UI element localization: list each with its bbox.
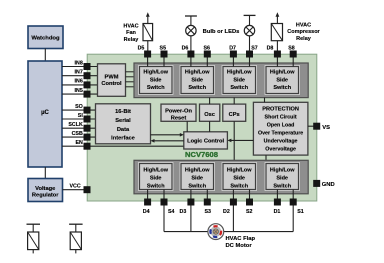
svg-text:S4: S4 xyxy=(168,209,175,215)
wire pin S1 stub xyxy=(292,190,294,201)
wire IN5 xyxy=(62,88,98,94)
block CPs xyxy=(223,104,246,121)
svg-text:Compressor: Compressor xyxy=(287,29,320,35)
svg-text:Switch: Switch xyxy=(273,85,291,91)
pin VS xyxy=(313,123,330,131)
svg-text:HVAC: HVAC xyxy=(123,24,138,30)
svg-text:PROTECTION: PROTECTION xyxy=(262,107,299,113)
svg-text:Voltage: Voltage xyxy=(35,186,55,192)
wire pin D6 stub xyxy=(190,56,192,67)
block High/Low Side Switch 6 xyxy=(180,65,215,95)
pin IN8 xyxy=(84,63,91,70)
wire S1 to motor xyxy=(292,206,294,232)
pin CSB xyxy=(84,134,91,141)
pin VCC xyxy=(84,186,91,193)
svg-text:D7: D7 xyxy=(229,45,236,51)
wire switch bank to PROTECTION xyxy=(264,98,266,103)
wire pin S8 stub xyxy=(292,56,294,67)
svg-text:High/Low: High/Low xyxy=(270,70,295,76)
wire IN8 xyxy=(62,60,98,66)
relay K2 HVAC Compressor Relay symbol xyxy=(271,12,282,50)
pin D3 xyxy=(180,199,195,216)
svg-text:Regulator: Regulator xyxy=(32,193,59,199)
block Power-On Reset xyxy=(161,104,196,122)
pin IN5 xyxy=(84,91,91,98)
box Watchdog xyxy=(28,26,63,49)
wire PWM out 1 xyxy=(126,71,136,73)
wire motor right segment xyxy=(224,231,294,233)
relay K4 spare relay symbol xyxy=(69,224,83,253)
svg-text:Side: Side xyxy=(191,77,203,83)
wire pin D2 stub xyxy=(232,190,234,201)
pin D7 xyxy=(229,45,237,57)
pin D6 xyxy=(182,45,195,57)
wire Watchdog to uC xyxy=(44,49,46,62)
svg-text:Side: Side xyxy=(233,175,245,181)
wire pin D4 stub xyxy=(147,190,149,201)
wire PWM out 4 xyxy=(126,86,136,88)
wire CPs to bottom switch bank xyxy=(233,121,235,160)
svg-text:S8: S8 xyxy=(288,45,295,51)
pin S5 xyxy=(160,45,168,57)
container top switch bank xyxy=(134,63,308,98)
svg-text:D4: D4 xyxy=(143,209,150,215)
svg-text:Switch: Switch xyxy=(188,85,206,91)
wire IN7 xyxy=(62,70,98,76)
pin S6 xyxy=(203,45,210,57)
wire SO xyxy=(62,104,96,110)
svg-text:Open Load: Open Load xyxy=(267,123,295,129)
svg-text:Side: Side xyxy=(150,175,162,181)
wire PWM out 3 xyxy=(126,81,136,83)
svg-text:IN6: IN6 xyxy=(75,79,83,85)
svg-text:D6: D6 xyxy=(182,45,189,51)
wire PWM out 2 xyxy=(126,76,136,78)
pin S1 xyxy=(290,199,304,216)
svg-text:Relay: Relay xyxy=(296,36,312,42)
svg-text:µC: µC xyxy=(41,110,49,116)
pin S4 xyxy=(161,199,175,216)
pin EN xyxy=(84,143,91,150)
svg-text:DC Motor: DC Motor xyxy=(226,243,253,249)
svg-text:Short Circuit: Short Circuit xyxy=(265,115,297,121)
svg-text:High/Low: High/Low xyxy=(227,167,252,173)
wire Interface to Logic Control arrow xyxy=(151,133,184,137)
block Osc xyxy=(200,104,220,121)
svg-text:High/Low: High/Low xyxy=(227,70,252,76)
wire Logic Control to Interface arrow xyxy=(151,139,184,143)
label HVAC Compressor Relay xyxy=(287,23,320,42)
svg-text:D2: D2 xyxy=(223,209,230,215)
wire SCLK xyxy=(62,122,96,128)
svg-text:CSB: CSB xyxy=(72,131,83,137)
IC NCV7608 chip body xyxy=(87,54,317,201)
svg-text:IN5: IN5 xyxy=(75,88,83,94)
svg-text:Interface: Interface xyxy=(111,136,135,142)
svg-text:Overvoltage: Overvoltage xyxy=(265,147,296,153)
svg-text:Side: Side xyxy=(276,77,288,83)
block PROTECTION xyxy=(253,102,308,155)
pin D8 xyxy=(267,45,281,57)
wire pin S6 stub xyxy=(206,56,208,67)
wire pin D1 stub xyxy=(276,190,278,201)
wire Osc to Logic Control xyxy=(209,121,211,132)
wire pin S3 stub xyxy=(206,190,208,201)
label HVAC Flap DC Motor xyxy=(226,236,256,249)
block PWM Control xyxy=(98,64,126,97)
svg-text:Side: Side xyxy=(233,77,245,83)
svg-text:Data: Data xyxy=(117,127,130,133)
block High/Low Side Switch 7 xyxy=(222,65,257,95)
pin D1 xyxy=(274,199,281,216)
wire pin D7 stub xyxy=(232,56,234,67)
svg-text:HVAC Flap: HVAC Flap xyxy=(226,236,256,242)
wire PROTECTION to bottom switch bank xyxy=(265,155,267,160)
wire switch bank to CPs xyxy=(233,98,235,105)
block High/Low Side Switch 5 xyxy=(138,65,173,95)
wire EN to Logic Control xyxy=(62,140,184,146)
svg-text:D5: D5 xyxy=(138,45,145,51)
pin S3 xyxy=(204,199,211,216)
pin IN7 xyxy=(84,72,91,79)
svg-text:Switch: Switch xyxy=(273,183,291,189)
pin S7 xyxy=(246,45,258,57)
svg-text:GND: GND xyxy=(322,182,335,188)
block High/Low Side Switch 4 xyxy=(138,162,173,191)
svg-text:High/Low: High/Low xyxy=(185,70,210,76)
svg-text:S5: S5 xyxy=(160,45,167,51)
svg-text:SI: SI xyxy=(78,113,84,119)
wire D3 to motor xyxy=(190,206,192,232)
svg-text:PWM: PWM xyxy=(105,74,119,80)
svg-text:Side: Side xyxy=(191,175,203,181)
pin D4 xyxy=(143,199,151,216)
wire pin D5 stub xyxy=(147,56,149,67)
svg-text:Switch: Switch xyxy=(147,85,165,91)
wire pin D3 stub xyxy=(190,190,192,201)
svg-text:High/Low: High/Low xyxy=(185,167,210,173)
svg-text:VCC: VCC xyxy=(70,184,81,190)
lamp DS1 bulb symbol xyxy=(185,16,197,51)
wire motor left segment xyxy=(164,231,208,233)
svg-text:Switch: Switch xyxy=(230,85,248,91)
pin D5 xyxy=(138,45,151,57)
svg-text:High/Low: High/Low xyxy=(143,167,168,173)
svg-text:Over Temperature: Over Temperature xyxy=(258,131,303,137)
wire PROTECTION to VS pin xyxy=(308,125,314,127)
svg-text:Reset: Reset xyxy=(171,116,187,122)
pin SI xyxy=(84,116,91,123)
pin S2 xyxy=(246,199,253,216)
box Voltage Regulator xyxy=(28,179,63,202)
wire switch bank to Osc xyxy=(209,98,211,105)
svg-text:S7: S7 xyxy=(251,45,258,51)
svg-text:Bulb or LEDs: Bulb or LEDs xyxy=(203,29,240,35)
svg-text:HVAC: HVAC xyxy=(296,23,311,29)
block High/Low Side Switch 3 xyxy=(180,162,215,191)
svg-text:Side: Side xyxy=(150,77,162,83)
label HVAC Fan Relay xyxy=(123,24,139,43)
svg-text:SCLK: SCLK xyxy=(68,122,83,128)
wire CSB xyxy=(62,131,96,137)
wire PROTECTION to Logic Control arrow xyxy=(227,139,253,143)
wire pin D8 stub xyxy=(276,56,278,67)
svg-text:Control: Control xyxy=(101,81,122,87)
svg-text:Switch: Switch xyxy=(147,183,165,189)
svg-text:Switch: Switch xyxy=(230,183,248,189)
svg-text:IN8: IN8 xyxy=(75,60,83,66)
svg-text:Osc: Osc xyxy=(204,112,215,118)
wire S4 to motor xyxy=(163,206,165,232)
svg-text:SO: SO xyxy=(75,104,83,110)
relay K3 spare relay symbol xyxy=(27,224,41,253)
pin GND xyxy=(313,180,334,188)
wire VCC xyxy=(63,184,88,190)
svg-text:S1: S1 xyxy=(297,209,304,215)
svg-text:S3: S3 xyxy=(204,209,211,215)
svg-text:Serial: Serial xyxy=(115,118,131,124)
svg-text:Undervoltage: Undervoltage xyxy=(264,139,298,145)
wire uC to Voltage Regulator xyxy=(44,167,46,179)
pin S8 xyxy=(288,45,296,57)
svg-text:Watchdog: Watchdog xyxy=(31,36,60,42)
svg-text:IN7: IN7 xyxy=(75,70,83,76)
wire pin S4 stub xyxy=(163,190,165,201)
svg-text:CPs: CPs xyxy=(229,112,240,118)
wire Power-On Reset to Logic Control xyxy=(186,121,188,132)
pin SO xyxy=(84,107,91,114)
wire pin S5 stub xyxy=(163,56,165,67)
svg-text:High/Low: High/Low xyxy=(143,70,168,76)
block High/Low Side Switch 8 xyxy=(265,65,300,95)
svg-text:D1: D1 xyxy=(274,209,281,215)
lamp DS2 bulb symbol xyxy=(244,15,256,50)
block High/Low Side Switch 1 xyxy=(265,162,300,191)
svg-text:16-Bit: 16-Bit xyxy=(115,109,131,115)
pin SCLK xyxy=(84,125,91,132)
svg-text:D8: D8 xyxy=(267,45,274,51)
wire D2 to motor xyxy=(232,206,234,232)
wire SI xyxy=(62,113,96,119)
container bottom switch bank xyxy=(134,160,308,194)
svg-text:Logic Control: Logic Control xyxy=(187,139,224,145)
svg-text:Fan: Fan xyxy=(126,30,136,36)
svg-text:NCV7608: NCV7608 xyxy=(185,150,218,159)
motor M1 HVAC Flap DC Motor xyxy=(208,224,224,240)
pin D2 xyxy=(223,199,237,216)
pin IN6 xyxy=(84,81,91,88)
svg-text:High/Low: High/Low xyxy=(270,167,295,173)
relay K1 HVAC Fan Relay symbol xyxy=(143,12,153,50)
wire pin S2 stub xyxy=(249,190,251,201)
svg-text:Switch: Switch xyxy=(188,183,206,189)
svg-text:EN: EN xyxy=(75,140,83,146)
svg-text:Power-On: Power-On xyxy=(165,109,192,115)
box uC microcontroller xyxy=(28,61,62,167)
block Logic Control xyxy=(184,132,228,149)
svg-text:S6: S6 xyxy=(203,45,210,51)
wire pin S7 stub xyxy=(249,56,251,67)
wire IN6 xyxy=(62,79,98,85)
svg-text:Side: Side xyxy=(276,175,288,181)
svg-text:Relay: Relay xyxy=(124,37,140,43)
block High/Low Side Switch 2 xyxy=(222,162,257,191)
block 16-Bit Serial Data Interface xyxy=(96,104,151,144)
svg-text:S2: S2 xyxy=(246,209,253,215)
svg-text:VS: VS xyxy=(322,125,330,131)
svg-text:D3: D3 xyxy=(180,209,187,215)
